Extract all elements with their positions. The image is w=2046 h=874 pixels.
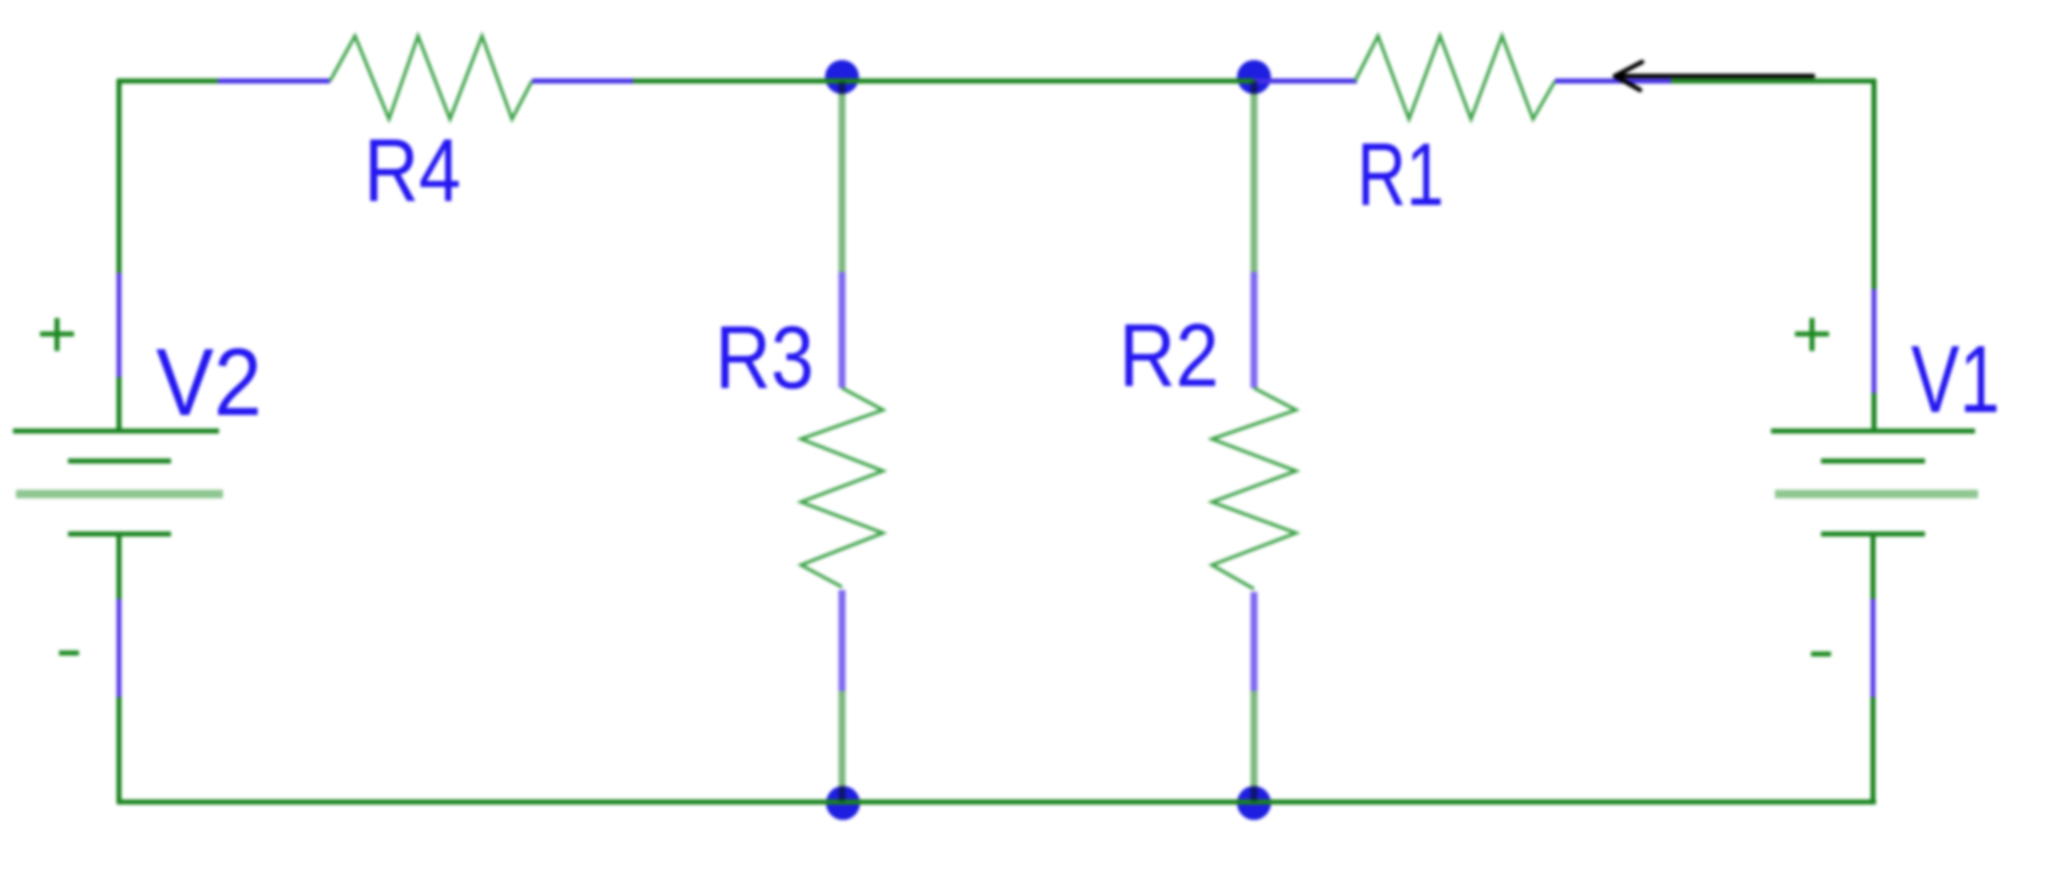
wire: top blue before R1: [1254, 79, 1357, 84]
V2 plus sign: [40, 318, 74, 351]
wire: right vertical blue segment: [1872, 289, 1877, 393]
wire: left vertical green to battery V2: [117, 377, 122, 430]
resistor R4: [330, 36, 532, 119]
battery V1 plate 4 short: [1821, 532, 1925, 537]
wire: right vertical green upper: [1872, 79, 1877, 289]
svg-text:V2: V2: [156, 329, 262, 436]
resistor R2: [1212, 388, 1296, 589]
wire: R2 branch blue upper: [1251, 272, 1258, 388]
svg-text:R4: R4: [364, 120, 461, 220]
wire: V2 stem blue: [117, 599, 122, 697]
wire: R3 branch blue lower: [839, 590, 846, 691]
V2 minus sign: [59, 651, 79, 656]
wire: top green node1 to node2: [633, 79, 1254, 84]
resistor R1: [1355, 36, 1555, 119]
node: junction dot bottom left: [826, 786, 860, 820]
battery V2 plate 1 long: [13, 429, 219, 434]
wire: R2 branch light green lower: [1251, 691, 1258, 802]
wire: left vertical green upper: [117, 79, 122, 273]
wire: bottom horizontal: [117, 800, 1876, 805]
battery V1 plate 1 long: [1771, 429, 1975, 434]
wire: top blue after R1: [1555, 79, 1671, 84]
node: junction dot bottom right: [1237, 786, 1271, 820]
node: junction dot top right: [1237, 60, 1271, 94]
wire: right vertical green to battery V1: [1872, 393, 1877, 430]
wire: R2 branch light green upper: [1251, 81, 1258, 272]
V1 minus sign: [1811, 652, 1831, 657]
svg-text:R1: R1: [1357, 124, 1444, 224]
current arrow: [1615, 62, 1813, 90]
battery V2 plate 4 short: [68, 532, 171, 537]
battery V2 plate 2 short: [68, 459, 171, 464]
resistor R3: [801, 388, 883, 587]
wire: top green from corner: [117, 79, 218, 84]
wire: R3 branch light green lower: [839, 691, 846, 802]
wire: top blue after R4: [532, 79, 633, 84]
battery V1 plate 3 long light: [1775, 490, 1978, 499]
battery V2 plate 3 long light: [16, 490, 223, 499]
svg-text:R2: R2: [1119, 305, 1219, 405]
wire: top blue before R4: [218, 79, 330, 84]
wire: V1 stem blue: [1871, 599, 1876, 697]
wire: R3 branch light green upper: [839, 81, 846, 272]
wire: V2 stem green below battery: [117, 534, 122, 599]
wire: V1 stem green to bottom: [1871, 697, 1876, 804]
wire: R2 branch blue lower: [1251, 592, 1258, 691]
wire: V2 stem green to bottom: [117, 697, 122, 804]
svg-text:V1: V1: [1911, 326, 2000, 433]
svg-text:R3: R3: [715, 307, 814, 407]
wire: V1 stem green below battery: [1871, 534, 1876, 599]
wire: left vertical blue segment: [117, 273, 122, 377]
V1 plus sign: [1795, 318, 1829, 351]
wire: top green to right corner: [1671, 79, 1876, 84]
battery V1 plate 2 short: [1821, 459, 1925, 464]
node: junction dot top left: [825, 60, 859, 94]
wire: R3 branch blue upper: [839, 272, 846, 388]
